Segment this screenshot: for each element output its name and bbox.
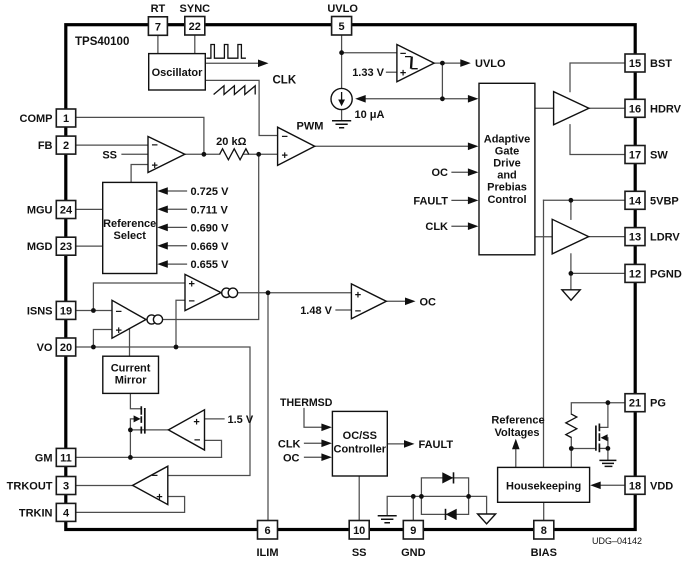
svg-text:20 kΩ: 20 kΩ: [216, 136, 246, 148]
mosfet Q2 gate bar: [595, 426, 597, 451]
error amp U1: [148, 137, 185, 173]
arrow mosfet Q2 body: [601, 434, 608, 441]
svg-text:UVLO: UVLO: [327, 3, 358, 15]
svg-text:Gate: Gate: [495, 145, 519, 157]
svg-text:−: −: [194, 435, 200, 447]
svg-text:VDD: VDD: [650, 480, 673, 492]
track amp U7: [133, 466, 168, 504]
pin 6 ILIM: [258, 521, 278, 540]
wire amp plus lead to 1.5V: [205, 418, 225, 420]
svg-text:HDRV: HDRV: [650, 103, 682, 115]
power ground triangle at PGND: [562, 290, 580, 300]
arrow FAULT into adaptive box: [468, 197, 479, 205]
wire MGU pin24 to reference select: [76, 208, 103, 210]
svg-text:2: 2: [63, 140, 69, 152]
arrow reference voltages up: [512, 439, 520, 450]
svg-text:MGU: MGU: [27, 205, 53, 217]
diode D2 cathode bar: [445, 509, 447, 520]
pin 19 ISNS: [56, 301, 75, 319]
svg-text:19: 19: [60, 305, 72, 317]
wire UVLO node to comparator minus input: [342, 52, 397, 54]
wire OC amp output to OC comparator and ILIM node: [221, 292, 351, 294]
svg-text:Drive: Drive: [493, 158, 521, 170]
svg-text:11: 11: [60, 452, 72, 464]
svg-text:−: −: [400, 48, 406, 60]
wire FB pin2 to error amp minus input: [76, 144, 148, 146]
wire PWM node down to current amp output: [150, 154, 259, 319]
arrow OC into controller: [321, 453, 332, 461]
wire adaptive box to high driver: [535, 107, 554, 109]
mosfet Q1 gate bar: [144, 408, 146, 434]
amp U4 output circles: [147, 315, 156, 324]
svg-text:−: −: [152, 470, 158, 482]
node ILIM: [266, 290, 271, 295]
arrow VDD into housekeeping: [590, 482, 601, 490]
svg-text:Voltages: Voltages: [494, 427, 539, 439]
ground at GND pin network: [378, 516, 397, 523]
svg-text:5VBP: 5VBP: [650, 195, 679, 207]
pin 2 FB: [56, 136, 75, 154]
svg-text:MGD: MGD: [27, 241, 53, 253]
wire CLK lead into OCSS controller: [305, 442, 323, 444]
wire current amp plus input to VO node: [93, 330, 112, 348]
diode D1 cathode bar: [453, 472, 455, 483]
svg-text:−: −: [282, 131, 288, 143]
wire PWM output to adaptive gate drive: [315, 145, 470, 147]
svg-text:1: 1: [63, 113, 69, 125]
UVLO comparator U8: [397, 45, 434, 82]
svg-text:23: 23: [60, 241, 72, 253]
svg-text:+: +: [282, 150, 288, 162]
wire current amp to current mirror: [129, 329, 131, 357]
svg-text:Mirror: Mirror: [115, 375, 148, 387]
wire 5VBP node to low driver top: [570, 200, 572, 219]
ARROWHEADS: [134, 59, 608, 520]
PWM comparator U2: [278, 127, 315, 165]
svg-text:Adaptive: Adaptive: [484, 133, 530, 145]
node VO mid: [174, 345, 179, 350]
svg-text:0.725 V: 0.725 V: [191, 186, 230, 198]
wire PGND node to pin12: [571, 272, 625, 274]
svg-text:TRKOUT: TRKOUT: [7, 481, 53, 493]
svg-text:COMP: COMP: [20, 113, 53, 125]
wire low driver output to LDRV pin13: [589, 236, 625, 238]
svg-text:6: 6: [264, 525, 270, 537]
wire gnd node through diode bridge: [413, 496, 486, 513]
pin 4 TRKIN: [56, 503, 75, 521]
pin 16 HDRV: [625, 99, 645, 117]
diode D2 body: [446, 509, 457, 520]
arrow UVLO output: [460, 59, 471, 67]
diode D1 body: [442, 472, 453, 483]
wire FAULT lead into adaptive box: [452, 199, 470, 201]
svg-text:VO: VO: [37, 342, 53, 354]
ground under current source: [332, 121, 351, 128]
wire housekeeping to BIAS pin8: [543, 502, 545, 520]
node bridge left: [419, 494, 424, 499]
wire current source bottom to ground: [341, 110, 343, 121]
arrow gate drive supply input: [468, 95, 479, 103]
node bridge right: [466, 494, 471, 499]
svg-text:FB: FB: [38, 140, 53, 152]
svg-text:22: 22: [189, 21, 201, 33]
svg-text:Controller: Controller: [334, 443, 387, 455]
node mosfet Q1 source: [128, 428, 133, 433]
wire current mirror to mosfet drain: [130, 393, 141, 408]
svg-text:+: +: [355, 290, 361, 302]
svg-text:−: −: [189, 296, 195, 308]
svg-text:LDRV: LDRV: [650, 232, 680, 244]
housekeeping box: [498, 467, 590, 502]
svg-text:GND: GND: [401, 547, 426, 559]
svg-text:Control: Control: [487, 194, 526, 206]
svg-text:−: −: [116, 306, 122, 318]
high side driver: [554, 92, 589, 125]
wire resistor to PWM plus input: [243, 153, 278, 155]
resistor PG pullup zigzag: [566, 414, 577, 437]
svg-text:1.33 V: 1.33 V: [352, 67, 384, 79]
wire FAULT output of OCSS controller: [387, 443, 404, 445]
node GM: [128, 455, 133, 460]
svg-text:0.711 V: 0.711 V: [191, 204, 229, 216]
wire error amp output to resistor: [185, 153, 220, 155]
svg-text:UDG–04142: UDG–04142: [592, 536, 642, 546]
svg-text:5: 5: [339, 21, 345, 33]
svg-text:20: 20: [60, 342, 72, 354]
svg-text:8: 8: [541, 525, 547, 537]
arrow FAULT output: [404, 440, 415, 448]
svg-text:14: 14: [629, 195, 642, 207]
node VO left: [91, 345, 96, 350]
arrow CLK into adaptive box: [468, 222, 479, 230]
pin 9 GND: [403, 521, 423, 540]
svg-text:15: 15: [629, 58, 641, 70]
svg-text:BST: BST: [650, 58, 672, 70]
current source arrow shaft: [341, 92, 343, 101]
node 5VBP: [569, 198, 574, 203]
svg-text:+: +: [189, 279, 195, 291]
wire PG pin21 line to resistor: [571, 403, 625, 414]
arrow into current source from gate drive line: [355, 95, 366, 103]
pin 11 GM: [56, 448, 75, 466]
svg-text:UVLO: UVLO: [475, 58, 506, 70]
svg-text:CLK: CLK: [425, 221, 448, 233]
node UVLO output: [440, 61, 445, 66]
svg-text:CLK: CLK: [273, 75, 297, 87]
current source 10uA: [331, 88, 352, 109]
wire GND pin9 up to gnd node: [412, 496, 414, 520]
svg-text:21: 21: [629, 398, 641, 410]
svg-text:FAULT: FAULT: [419, 439, 454, 451]
wire OC lead into adaptive box: [452, 171, 470, 173]
svg-text:TPS40100: TPS40100: [75, 36, 129, 48]
AMP INPUT SYMBOLS: [116, 48, 407, 503]
svg-text:0.690 V: 0.690 V: [191, 222, 230, 234]
wire TRKOUT pin3 to track amp output: [76, 485, 133, 487]
svg-text:9: 9: [410, 525, 416, 537]
reference select box: [103, 182, 157, 273]
wire oscillator sawtooth to PWM minus input: [205, 80, 277, 135]
wire amp minus feedback: [205, 440, 222, 457]
OC/SS controller box: [332, 411, 387, 476]
arrow OC into adaptive box: [468, 168, 479, 176]
svg-text:Housekeeping: Housekeeping: [506, 480, 581, 492]
wire OCSS controller to SS pin10: [358, 476, 360, 521]
pin 10 SS: [349, 521, 369, 540]
svg-text:1.5 V: 1.5 V: [228, 414, 254, 426]
svg-text:THERMSD: THERMSD: [280, 397, 333, 409]
wire gnd node to left ground: [387, 496, 413, 515]
arrow THERMSD into controller: [321, 424, 332, 432]
svg-text:OC: OC: [283, 452, 300, 464]
low side driver: [552, 219, 588, 254]
earth triangle at diode bridge: [478, 514, 496, 524]
hysteresis glyph in UVLO comparator: [405, 57, 418, 69]
pin 13 LDRV: [625, 228, 645, 246]
node gate drive supply: [440, 96, 445, 101]
svg-text:−: −: [152, 140, 158, 152]
wire VO pin20 to track amp minus input: [76, 347, 250, 476]
svg-text:10: 10: [353, 525, 365, 537]
wire ref lead 0.655V: [167, 263, 187, 265]
sawtooth waveform: [214, 86, 256, 95]
svg-text:CLK: CLK: [278, 438, 301, 450]
wire high driver output to HDRV pin16: [589, 107, 625, 109]
arrow ref 0.669V: [157, 242, 168, 250]
node COMP junction: [202, 152, 207, 157]
svg-text:4: 4: [63, 507, 70, 519]
svg-text:24: 24: [60, 205, 73, 217]
wire OC lead into OCSS controller: [305, 456, 323, 458]
svg-text:ILIM: ILIM: [257, 547, 279, 559]
wire driver bottom to PGND ground: [570, 254, 572, 290]
svg-text:Reference: Reference: [103, 218, 156, 230]
svg-text:Reference: Reference: [491, 415, 544, 427]
wire UVLO output down to gate drive line: [441, 63, 443, 99]
current sense amp U4: [112, 300, 146, 338]
svg-text:13: 13: [629, 232, 641, 244]
wire ISNS node up to OC amp plus input: [93, 283, 185, 311]
arrow mosfet Q1 body: [134, 415, 141, 422]
svg-text:RT: RT: [151, 3, 166, 15]
adaptive gate drive box: [479, 83, 535, 255]
wire diode bridge loop: [421, 478, 468, 515]
current mirror box: [103, 356, 159, 393]
mosfet Q1 channel segments: [140, 406, 142, 433]
wire UVLO pin5 down to current source: [341, 35, 343, 89]
hysteresis glyph vertical: [410, 57, 413, 69]
wire driver bottom to SW pin17: [570, 125, 625, 155]
svg-text:FAULT: FAULT: [413, 195, 448, 207]
wire 1.48V lead: [336, 309, 351, 311]
svg-text:OC: OC: [432, 167, 449, 179]
pin 8 BIAS: [534, 521, 554, 540]
wire PG mosfet body arrow vertical: [607, 438, 609, 460]
wire BST pin15 to driver top: [570, 63, 625, 92]
OC comparator U5: [351, 284, 386, 319]
pin 15 BST: [625, 54, 645, 72]
wire MGD pin23 to reference select: [76, 245, 103, 247]
wire adaptive box to low driver: [535, 236, 552, 238]
arrow ref 0.725V: [157, 187, 168, 195]
pin 24 MGU: [56, 201, 75, 219]
svg-text:1.48 V: 1.48 V: [300, 305, 332, 317]
pin 3 TRKOUT: [56, 477, 75, 495]
oscillator box: [149, 54, 206, 90]
mosfet Q2 channel segments: [598, 424, 600, 453]
wire error amp plus input to reference select: [131, 165, 148, 183]
gm amp U3 output circles: [222, 288, 231, 297]
wire gate lead of PG mosfet: [571, 448, 596, 450]
wire oscillator CLK output: [205, 62, 258, 64]
svg-text:16: 16: [629, 103, 641, 115]
wire current source to adaptive gate drive: [365, 98, 470, 100]
wire UVLO comparator output: [434, 62, 461, 64]
node PGND: [569, 271, 574, 276]
pin 14 5VBP: [625, 191, 645, 209]
arrow current source arrowhead: [338, 100, 345, 107]
svg-text:10 μA: 10 μA: [355, 109, 385, 121]
pin 12 PGND: [625, 264, 645, 282]
pin 23 MGD: [56, 237, 75, 255]
svg-text:+: +: [152, 160, 158, 172]
svg-text:SS: SS: [352, 547, 367, 559]
svg-text:3: 3: [63, 481, 69, 493]
svg-text:+: +: [156, 492, 162, 504]
pin 18 VDD: [625, 476, 645, 494]
pin 1 COMP: [56, 109, 75, 127]
arrow CLK into controller: [321, 440, 332, 448]
pin 20 VO: [56, 338, 75, 356]
svg-text:0.669 V: 0.669 V: [191, 241, 230, 253]
wire ref lead 0.711V: [167, 208, 187, 210]
wire COMP pin1 to error amp output node: [76, 117, 204, 153]
svg-text:+: +: [400, 68, 406, 80]
arrow OC comparator output: [405, 298, 416, 306]
arrow ref 0.655V: [157, 260, 168, 268]
svg-text:7: 7: [155, 21, 161, 33]
wire 1.33V lead: [387, 71, 397, 73]
svg-text:Select: Select: [113, 230, 146, 242]
wire THERMSD into OCSS controller: [304, 409, 323, 428]
wire ILIM node down to ILIM pin6: [267, 293, 269, 521]
wire mosfet body arrow lead: [130, 419, 134, 430]
wire RT pin7 to oscillator: [157, 35, 159, 54]
wire 5VBP pin14 line: [544, 199, 626, 201]
svg-text:PWM: PWM: [297, 121, 324, 133]
chip outline border: [66, 25, 635, 530]
arrow ref 0.711V: [157, 206, 168, 214]
arrow PWM into adaptive box: [468, 143, 479, 151]
node UVLO pin5: [339, 50, 344, 55]
wire resistor bottom into housekeeping: [570, 438, 572, 468]
svg-text:BIAS: BIAS: [531, 547, 557, 559]
svg-text:SW: SW: [650, 150, 668, 162]
wire ref lead 0.669V: [167, 245, 187, 247]
pin 22 SYNC: [185, 17, 205, 36]
wire VDD pin18 lead to housekeeping: [600, 484, 625, 486]
svg-text:and: and: [497, 170, 517, 182]
node PG source: [606, 446, 611, 451]
node ISNS: [91, 308, 96, 313]
node GND pin9: [411, 494, 416, 499]
gm drive amp U6: [168, 410, 204, 450]
resistor 20k zigzag: [220, 149, 249, 160]
svg-text:−: −: [355, 306, 361, 318]
arrow ref 0.690V: [157, 224, 168, 232]
svg-text:18: 18: [629, 480, 641, 492]
pin 21 PG: [625, 394, 645, 412]
svg-text:ISNS: ISNS: [27, 305, 53, 317]
wire SYNC pin22 to oscillator: [194, 35, 196, 54]
wire reference voltages arrow stem: [515, 448, 517, 467]
wire SS lead into error amp: [122, 153, 148, 155]
svg-text:Prebias: Prebias: [487, 182, 527, 194]
wire mosfet source node to GM line: [129, 430, 131, 458]
wire 5VBP down to housekeeping: [543, 200, 545, 467]
svg-text:TRKIN: TRKIN: [19, 507, 53, 519]
node PWM plus: [256, 152, 261, 157]
svg-text:12: 12: [629, 268, 641, 280]
svg-text:17: 17: [629, 150, 641, 162]
node PG drain: [606, 400, 611, 405]
pin 17 SW: [625, 146, 645, 164]
svg-text:SYNC: SYNC: [180, 3, 211, 15]
node PG gate: [569, 446, 574, 451]
wire TRKIN pin4 to track amp plus input: [76, 497, 185, 513]
wire OC comparator output: [386, 300, 405, 302]
pin 7 RT: [148, 17, 167, 36]
svg-text:+: +: [116, 325, 122, 337]
wire CLK lead into adaptive box: [452, 225, 470, 227]
wire ISNS pin19 to current amp minus input: [76, 310, 112, 312]
overcurrent gm amp U3: [185, 274, 221, 310]
ground under PG mosfet: [599, 460, 616, 466]
arrow CLK output: [258, 60, 269, 68]
svg-text:0.655 V: 0.655 V: [191, 259, 230, 271]
svg-text:OC: OC: [420, 296, 437, 308]
svg-text:PG: PG: [650, 398, 666, 410]
svg-text:+: +: [193, 417, 199, 429]
wire PG mosfet drain: [600, 403, 608, 428]
svg-text:OC/SS: OC/SS: [343, 430, 377, 442]
wire GM pin11 to amp feedback: [76, 456, 222, 458]
clk pulse waveform: [206, 45, 246, 59]
svg-text:GM: GM: [35, 452, 53, 464]
wire OC amp minus input to VO node: [176, 300, 185, 347]
pin 5 UVLO: [332, 17, 352, 36]
wire ref lead 0.690V: [167, 226, 187, 228]
svg-text:SS: SS: [102, 149, 117, 161]
svg-text:PGND: PGND: [650, 268, 682, 280]
wire ref lead 0.725V: [167, 190, 187, 192]
label Adaptive Gate Drive and Prebias Control: [484, 133, 530, 206]
PIN BOXES: [56, 17, 645, 540]
svg-text:Current: Current: [111, 363, 151, 375]
svg-text:Oscillator: Oscillator: [152, 67, 203, 79]
wire mosfet source node line: [130, 429, 168, 431]
wire PG mosfet source stub: [600, 447, 608, 449]
